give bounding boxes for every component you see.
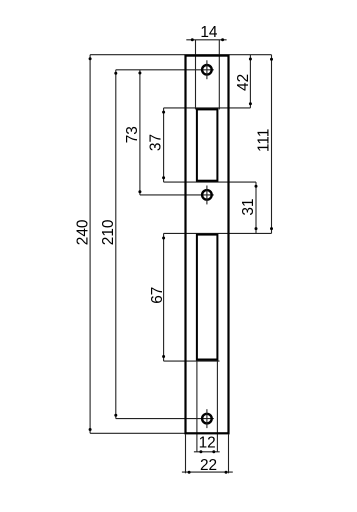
wire: extension line plate bottom [90,432,185,434]
svg-text:67: 67 [149,287,166,304]
svg-text:240: 240 [75,220,92,246]
wire: 22 extension left [185,434,187,473]
wire: extension line cutout1 bottom [164,181,256,183]
svg-text:31: 31 [240,198,257,215]
wire: extension line cutout2 bottom [164,360,220,362]
wire: cutout edge line left extended (12 extension) [196,360,198,452]
wire: channel line left (14 extension) [195,40,197,110]
dimension 240 line [89,55,91,434]
wire: extension line middle hole center [140,194,214,196]
svg-text:111: 111 [256,129,273,152]
dimension 67 line [163,233,165,361]
cutout 1 (latch opening) [197,109,218,180]
dimension 31 line [255,182,257,233]
svg-text:22: 22 [200,457,217,474]
cutout 2 (deadbolt opening) [197,235,218,360]
wire: extension line plate top [90,54,271,56]
dimension 210 line [115,70,117,419]
wire: extension line top hole center [116,69,214,71]
wire: extension line cutout1 top [164,107,251,109]
svg-text:42: 42 [235,74,252,91]
dimension 111 line [271,55,273,234]
svg-text:14: 14 [200,24,218,41]
screw hole middle [202,186,212,205]
wire: cutout edge line right extended (12 extension) [216,360,218,452]
svg-text:12: 12 [199,435,216,452]
dimension 12 line [194,451,220,453]
svg-text:37: 37 [147,134,164,151]
screw hole top [202,60,212,79]
dimension 73 line [139,70,141,195]
wire: 22 extension right [228,434,230,473]
screw hole bottom [202,409,212,428]
svg-text:73: 73 [124,126,141,143]
dimension 42 line [249,55,251,108]
wire: channel line right (14 extension) [218,40,220,110]
wire: extension line bottom hole center [116,418,214,420]
wire: extension line cutout2 top [164,232,272,234]
svg-text:210: 210 [100,220,117,246]
dimension 37 line [163,108,165,182]
dimension 14 line [186,39,226,41]
plate outline [186,56,229,434]
dimension 22 line [182,471,233,473]
